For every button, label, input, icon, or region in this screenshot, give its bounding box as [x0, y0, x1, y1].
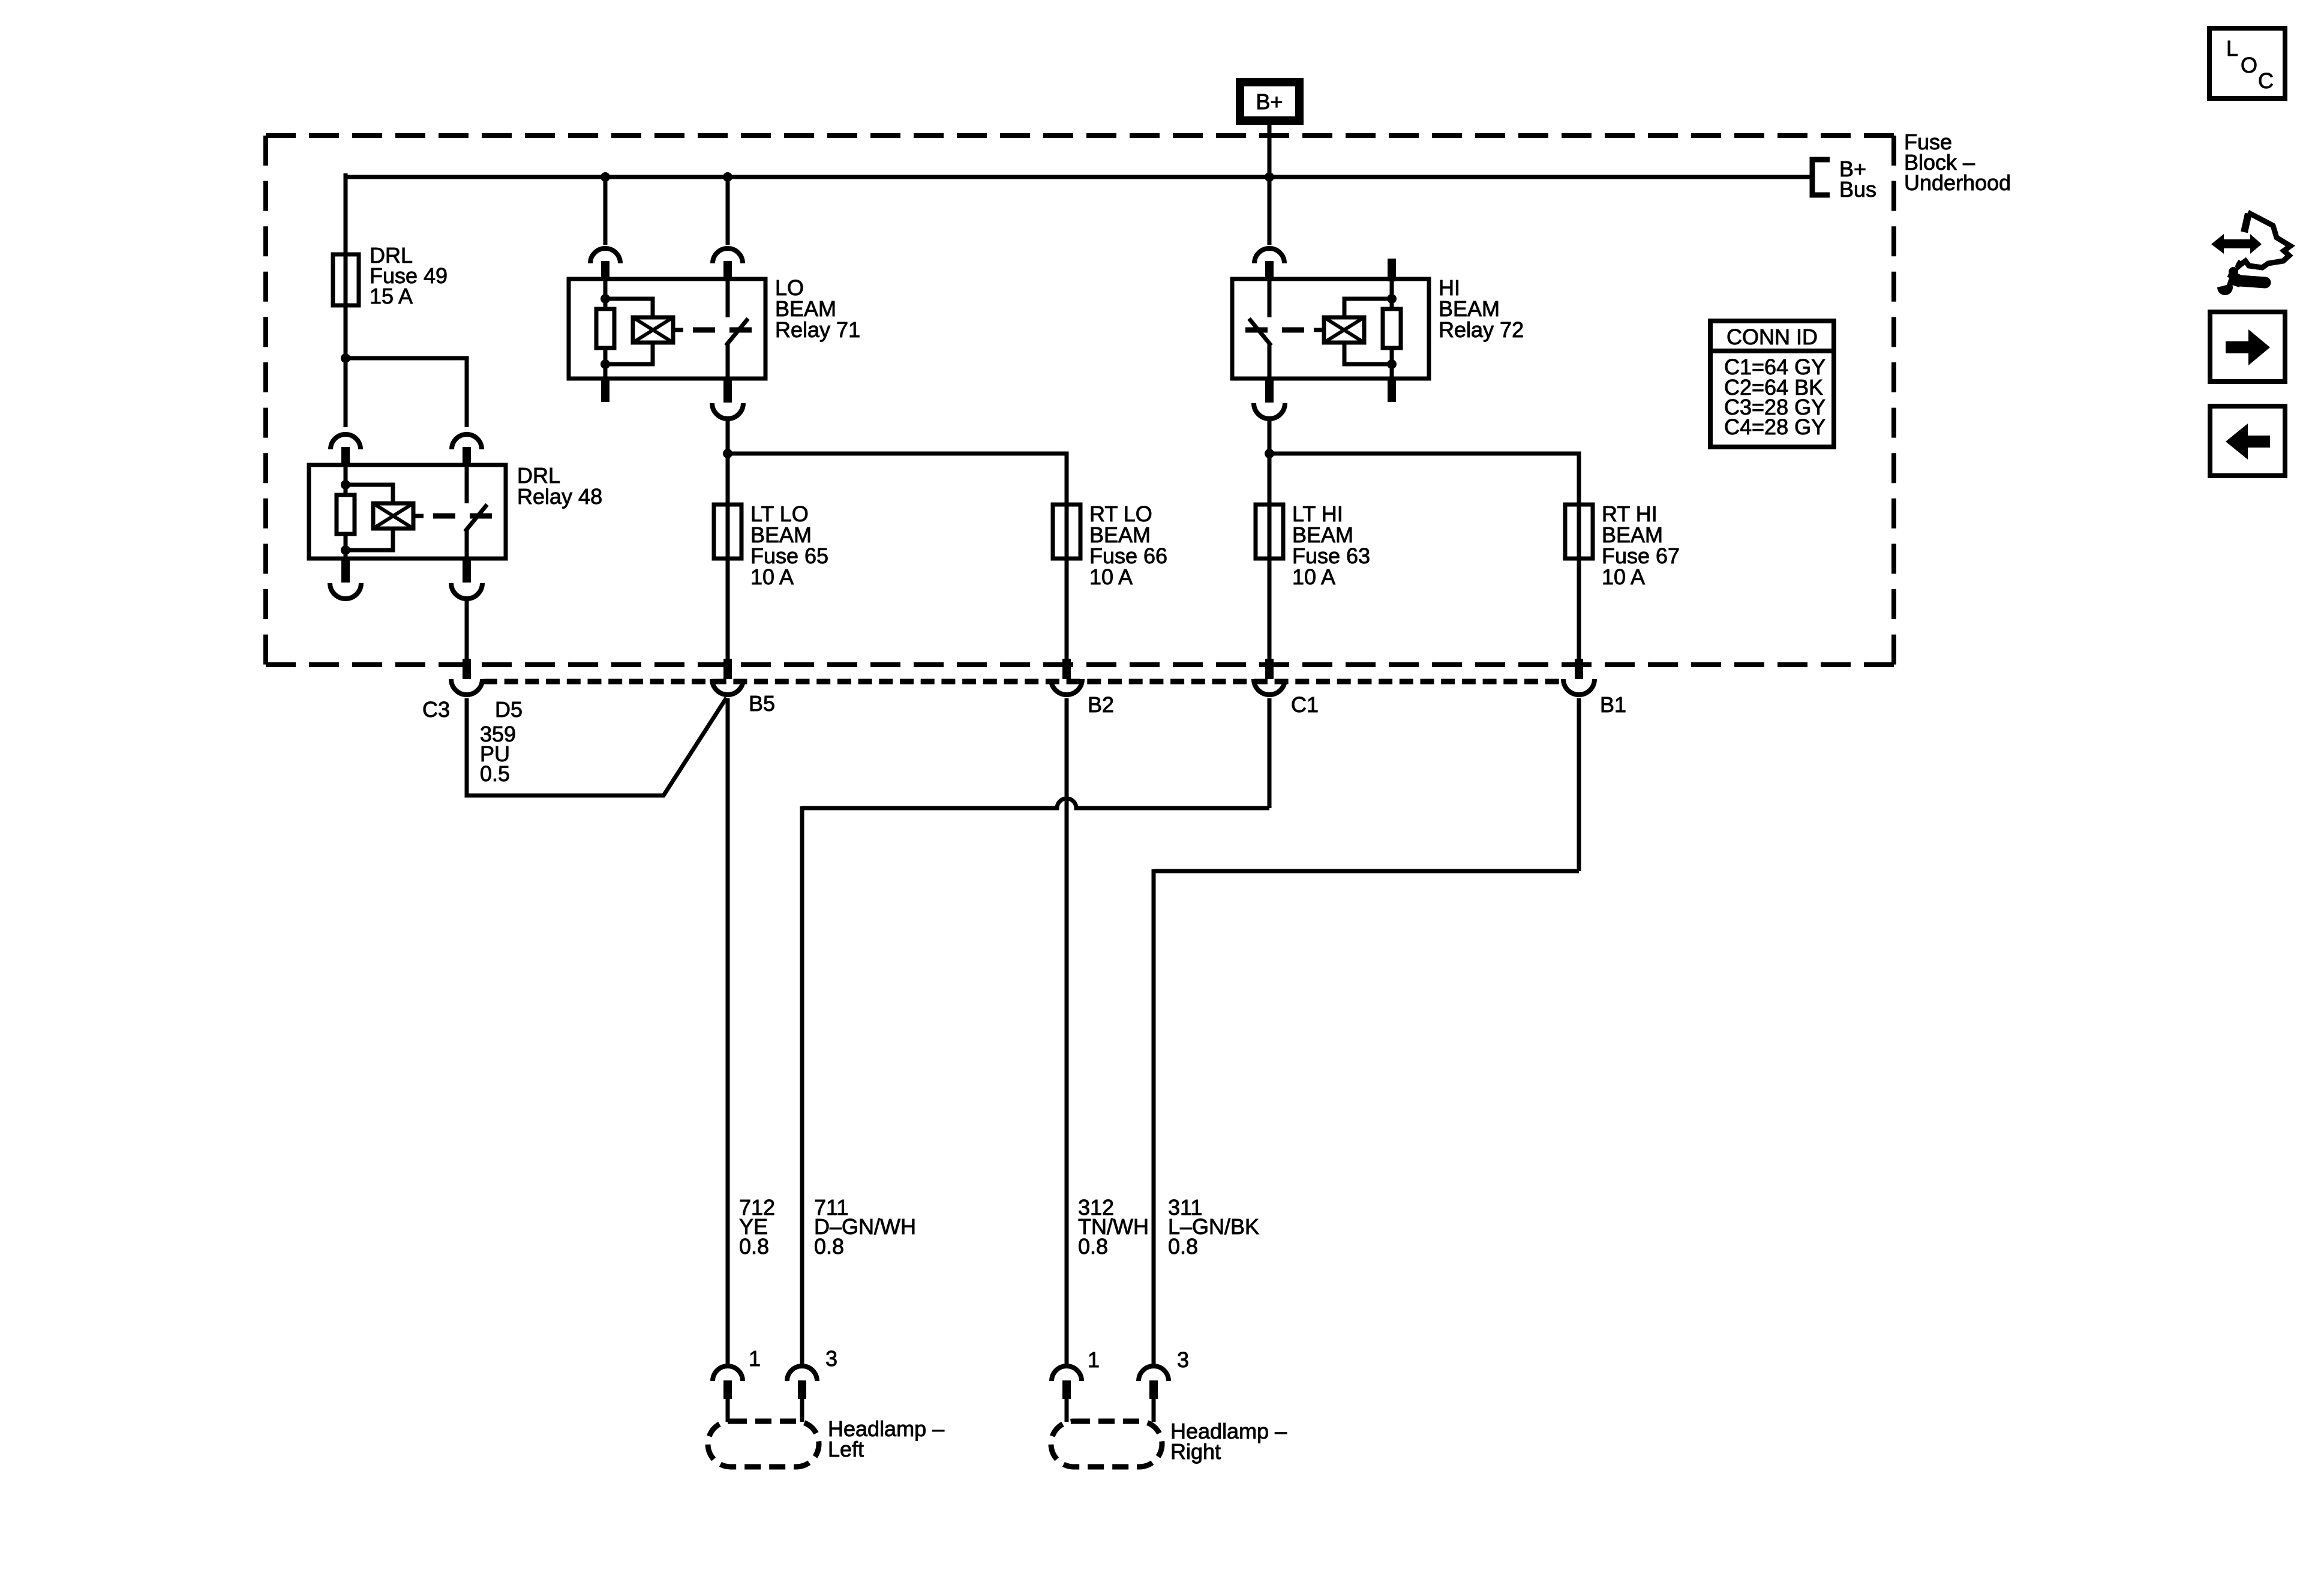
- headlamp right dashed outline: [1051, 1421, 1162, 1467]
- coil actuator stub relay 48: [413, 514, 424, 518]
- svg-text:15 A: 15 A: [370, 284, 413, 308]
- svg-text:CONN ID: CONN ID: [1727, 325, 1818, 349]
- wire relay 48 coil parallel loop: [346, 485, 393, 550]
- B+ power feed box: [1236, 78, 1304, 125]
- wire through fuse 67: [1577, 505, 1581, 660]
- resistor relay 48 internal: [337, 495, 355, 534]
- svg-text:C: C: [2258, 68, 2274, 93]
- fuse F67 RT HI BEAM: [1565, 505, 1593, 559]
- svg-text:3: 3: [825, 1346, 837, 1371]
- connector pin relay 48 coil 85: [331, 434, 361, 466]
- connector pin B5 at fuse block: [712, 659, 743, 695]
- svg-text:O: O: [2241, 53, 2257, 77]
- icon hand with double arrow and wrench: [2208, 212, 2290, 295]
- svg-text:0.8: 0.8: [739, 1234, 769, 1259]
- switch relay 48 fixed contact lead: [465, 465, 469, 503]
- CONN ID table header separator: [1710, 349, 1834, 353]
- svg-text:Bus: Bus: [1839, 177, 1876, 202]
- node junction bus / relay 71 switch: [723, 172, 732, 182]
- switch relay 71 fixed contact lead: [726, 279, 730, 317]
- wire relay 72 switch down to fuses: [1268, 421, 1272, 506]
- switch relay 72 fixed contact lead: [1268, 279, 1272, 317]
- svg-text:10 A: 10 A: [1089, 565, 1133, 589]
- headlamp left dashed outline: [708, 1421, 819, 1467]
- wire DRL fuse 49 to relay 48 coil: [344, 305, 348, 427]
- svg-text:Relay 71: Relay 71: [775, 317, 860, 342]
- node junction hi beam fuses: [1265, 449, 1274, 458]
- wrench of hand icon: [2208, 267, 2265, 295]
- connector pin relay 71 coil top: [590, 248, 620, 280]
- connector headlamp left pin 3: [787, 1366, 817, 1399]
- wire 311 L-GN/BK 0.8 to headlamp right pin 3: [1152, 869, 1156, 1364]
- finger stroke of hand icon: [2238, 261, 2241, 266]
- coil actuator stub relay 72: [1314, 328, 1324, 332]
- relay 71 coil lead top: [603, 279, 608, 309]
- fuse F49 DRL (fuse element): [333, 254, 359, 305]
- wire from B1 down: [1577, 698, 1581, 871]
- svg-text:Left: Left: [828, 1437, 864, 1461]
- fuse block underhood dashed box left border: [263, 136, 268, 665]
- wire headlamp right pin 3 tail: [1152, 1398, 1156, 1422]
- wire headlamp left pin 3 tail: [800, 1398, 804, 1422]
- fuse block underhood dashed box top border: [266, 133, 1894, 138]
- svg-text:C4=28 GY: C4=28 GY: [1724, 415, 1825, 439]
- wire branch to relay 48 switch: [346, 358, 467, 427]
- wire through fuse 66: [1065, 505, 1069, 660]
- node junction DRL branch: [341, 353, 350, 363]
- wire branch to RT HI fuse 67: [1269, 454, 1579, 506]
- svg-text:10 A: 10 A: [1602, 565, 1645, 589]
- relay 72 coil lead top: [1390, 279, 1394, 309]
- switch relay 71 blade: [726, 319, 748, 346]
- svg-text:Right: Right: [1170, 1439, 1221, 1464]
- svg-text:B1: B1: [1600, 692, 1626, 717]
- thumb stroke of hand icon: [2244, 214, 2248, 232]
- wire headlamp right pin 1 tail: [1065, 1398, 1069, 1422]
- wire bus to relay 71 switch: [726, 175, 730, 245]
- fuse block underhood dashed box bottom border: [266, 662, 1894, 667]
- switch relay 48 blade: [465, 505, 487, 532]
- svg-text:0.8: 0.8: [814, 1234, 844, 1259]
- wire 312 TN/WH 0.8 from B2 to headlamp right pin 1: [1065, 698, 1069, 1364]
- wire headlamp left pin 1 tail: [726, 1398, 730, 1422]
- actuator dashed link relay 72: [1245, 328, 1304, 333]
- fuse F66 RT LO BEAM: [1053, 505, 1080, 559]
- svg-text:Relay 72: Relay 72: [1439, 317, 1524, 342]
- svg-text:B+: B+: [1256, 89, 1283, 114]
- svg-text:3: 3: [1177, 1347, 1189, 1372]
- svg-text:0.8: 0.8: [1078, 1234, 1108, 1259]
- wire 711 D-GN/WH 0.8 to headlamp left pin 3: [800, 806, 804, 1364]
- fuse F65 LT LO BEAM: [714, 505, 741, 559]
- wire relay 71 coil parallel loop: [605, 299, 653, 364]
- connector pin relay 48 switch 87 bottom: [451, 557, 482, 599]
- relay 72 coil lead bottom: [1390, 348, 1394, 379]
- connector pin relay 48 coil 86 bottom: [330, 557, 361, 599]
- wire C1 horizontal with hop over B2 wire: [802, 798, 1269, 808]
- coil solenoid box relay 72: [1324, 317, 1364, 343]
- node relay 71 coil bottom: [600, 359, 610, 369]
- actuator dashed link relay 71: [693, 328, 752, 333]
- harness connector dotted line at fuse block exit: [484, 679, 1563, 685]
- connector pin relay 72 coil top stub: [1388, 259, 1396, 281]
- coil actuator stub relay 71: [673, 328, 683, 332]
- left arrow legend box: [2210, 406, 2285, 476]
- resistor relay 72 internal: [1383, 309, 1401, 348]
- right arrow legend box: [2210, 312, 2285, 382]
- svg-text:Underhood: Underhood: [1904, 170, 2011, 195]
- actuator dashed link relay 48: [433, 514, 492, 519]
- relay 48 coil lead top: [344, 465, 348, 495]
- relay K48 DRL body: [309, 465, 506, 559]
- node relay 48 coil bottom: [341, 545, 350, 555]
- switch relay 71 common lead: [726, 344, 730, 379]
- svg-text:B2: B2: [1088, 692, 1114, 717]
- fuse block underhood dashed box right border: [1891, 136, 1896, 665]
- wire B+ drop to bus: [1268, 125, 1272, 175]
- connector pin relay 48 switch 30: [452, 434, 482, 466]
- connector headlamp left pin 1: [713, 1366, 743, 1399]
- coil solenoid box relay 48: [373, 503, 413, 529]
- wire branch to RT LO fuse 66: [728, 454, 1067, 506]
- double arrow of hand icon: [2211, 234, 2262, 254]
- resistor relay 71 internal: [596, 309, 614, 348]
- svg-text:C3: C3: [422, 697, 450, 722]
- node relay 48 coil top: [341, 480, 350, 490]
- svg-text:1: 1: [749, 1346, 761, 1371]
- coil X mark relay 71: [633, 317, 673, 343]
- wire from C1 down: [1268, 698, 1272, 808]
- relay K72 HI BEAM body: [1232, 279, 1429, 379]
- LOC legend box: [2209, 28, 2285, 98]
- connector pin C1 at fuse block: [1254, 659, 1285, 695]
- fuse F63 LT HI BEAM: [1256, 505, 1283, 559]
- right arrow icon: [2226, 329, 2270, 365]
- CONN ID table box: [1710, 321, 1834, 447]
- connector pin relay 71 switch bottom: [712, 377, 743, 419]
- svg-text:L: L: [2226, 36, 2238, 61]
- svg-text:Relay 48: Relay 48: [517, 484, 602, 509]
- connector pin relay 72 switch top: [1254, 248, 1284, 280]
- connector C3 pin D5 at fuse block: [451, 659, 482, 695]
- switch relay 48 common lead: [465, 530, 469, 559]
- node junction bus / relay 71 coil: [600, 172, 610, 182]
- connector pin relay 71 switch top: [713, 248, 743, 280]
- wire B1 horizontal: [1154, 869, 1579, 873]
- svg-text:D5: D5: [495, 697, 523, 722]
- relay 71 coil lead bottom: [603, 348, 608, 379]
- node relay 72 coil top: [1387, 294, 1397, 304]
- node relay 71 coil top: [600, 294, 610, 304]
- wire relay 72 coil parallel loop: [1344, 299, 1392, 364]
- left arrow icon: [2226, 424, 2270, 460]
- wire through fuse 65: [726, 505, 730, 660]
- switch relay 72 common lead: [1268, 344, 1272, 379]
- svg-text:1: 1: [1088, 1347, 1100, 1372]
- node junction lo beam fuses: [723, 449, 732, 458]
- svg-text:0.8: 0.8: [1168, 1234, 1198, 1259]
- coil X mark relay 72: [1324, 317, 1364, 343]
- connector headlamp right pin 3: [1139, 1366, 1169, 1399]
- wire bus to relay 71 coil: [603, 175, 608, 245]
- connector pin B1 at fuse block: [1563, 659, 1595, 695]
- coil solenoid box relay 71: [633, 317, 673, 343]
- wire relay 48 switch to connector C3 D5: [465, 601, 469, 660]
- wire 359 PU 0.5 from connector D5: [467, 698, 726, 795]
- wire B+ bus drop to relay 72 switch: [1268, 175, 1272, 245]
- relay K71 LO BEAM body: [569, 279, 765, 379]
- connector pin relay 72 switch bottom: [1254, 377, 1285, 419]
- connector headlamp right pin 1: [1052, 1366, 1082, 1399]
- node junction bus / B+ drop: [1265, 172, 1274, 182]
- relay 48 coil lead bottom: [344, 534, 348, 559]
- connector pin relay 71 coil bottom stub: [601, 377, 609, 402]
- connector pin relay 72 coil bottom stub: [1388, 377, 1396, 402]
- wire B+ bus horizontal: [346, 175, 1812, 179]
- wire relay 71 switch down to fuses: [726, 421, 730, 506]
- wire bus to DRL fuse 49: [344, 173, 348, 427]
- node relay 72 coil bottom: [1387, 359, 1397, 369]
- wire through fuse 63: [1268, 505, 1272, 660]
- B+ Bus bar terminal bracket: [1812, 160, 1830, 195]
- svg-text:10 A: 10 A: [750, 565, 794, 589]
- wire 712 YE 0.8 from B5 to headlamp left pin 1: [726, 698, 730, 1364]
- switch relay 72 blade: [1249, 319, 1271, 346]
- svg-text:10 A: 10 A: [1292, 565, 1335, 589]
- coil X mark relay 48: [373, 503, 413, 529]
- svg-text:B5: B5: [749, 691, 775, 716]
- hand outline of hand icon: [2236, 212, 2290, 268]
- svg-text:0.5: 0.5: [480, 761, 510, 786]
- svg-text:C1: C1: [1291, 692, 1319, 717]
- connector pin B2 at fuse block: [1051, 659, 1082, 695]
